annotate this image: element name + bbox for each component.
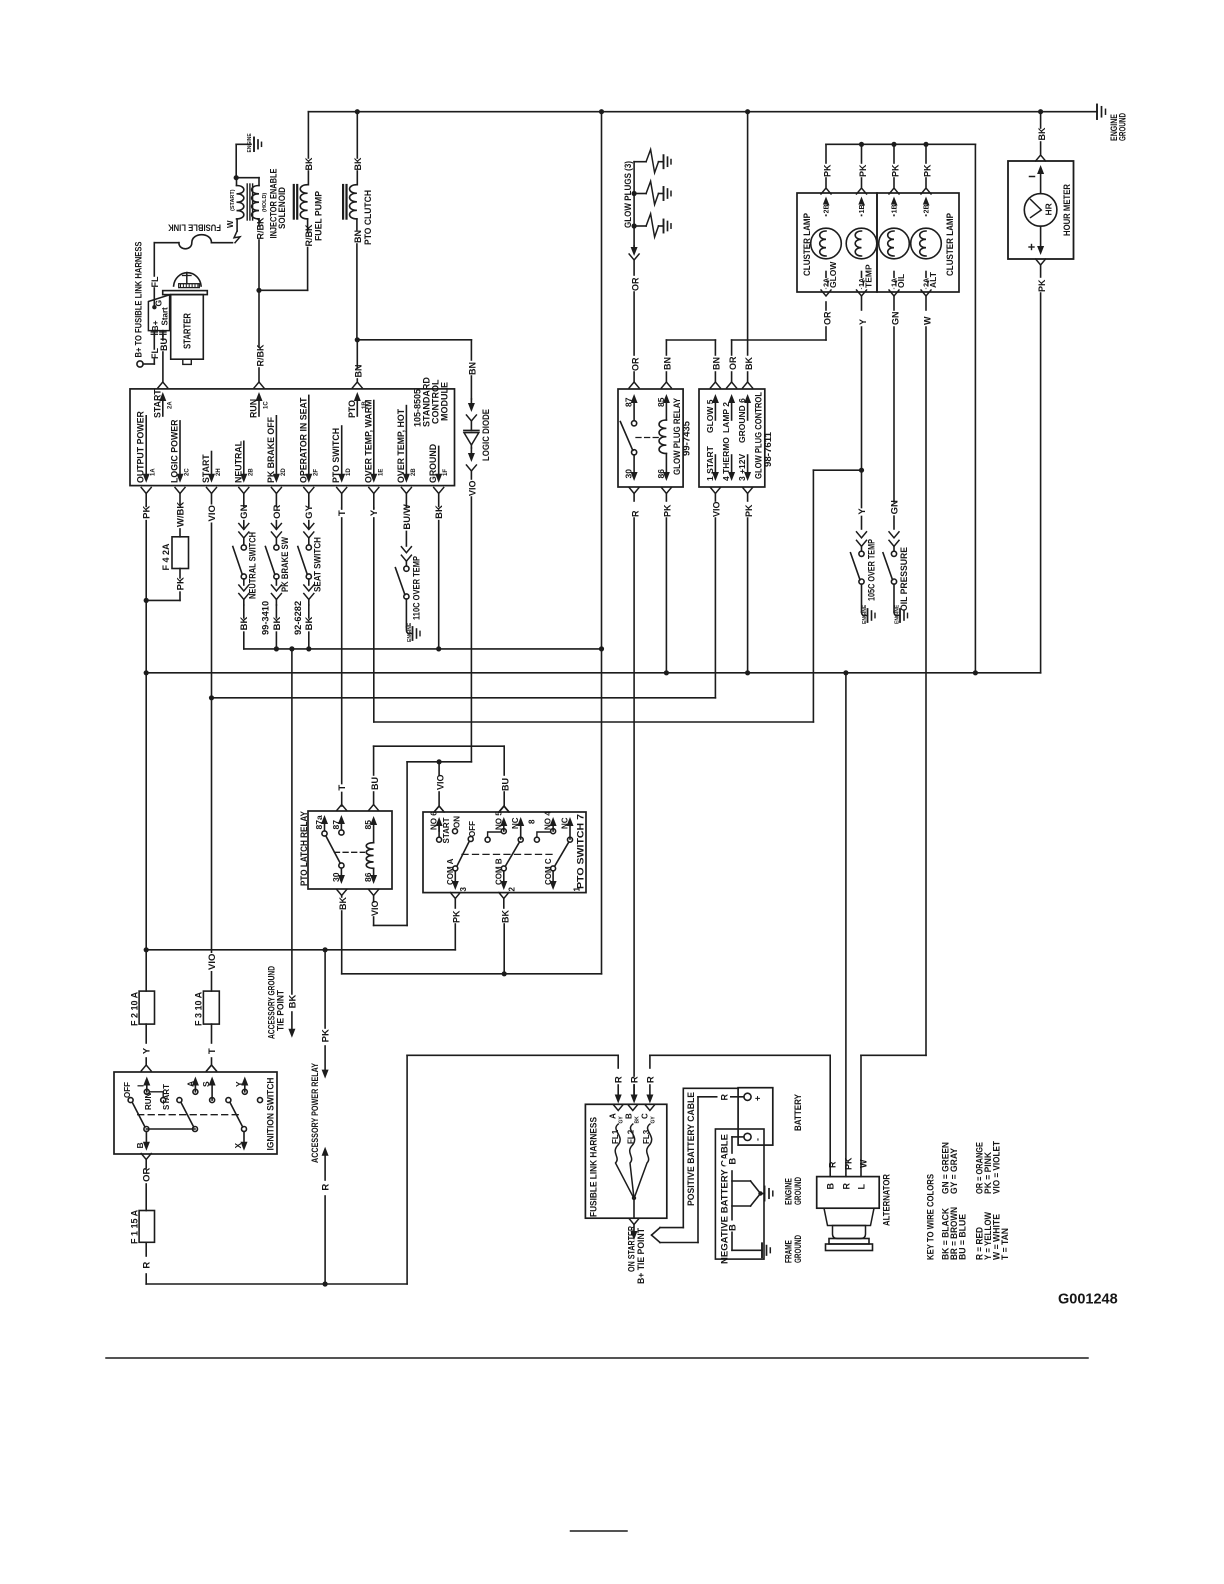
svg-text:PK: PK xyxy=(1037,279,1047,292)
svg-text:2B: 2B xyxy=(824,204,831,213)
svg-text:1E: 1E xyxy=(378,469,384,476)
svg-text:2C: 2C xyxy=(185,468,191,476)
svg-text:4 THERMO: 4 THERMO xyxy=(721,437,731,481)
svg-text:ENGINE: ENGINE xyxy=(784,1178,794,1205)
cluster lamp ALT xyxy=(911,197,942,290)
svg-text:GLOW PLUG RELAY: GLOW PLUG RELAY xyxy=(672,398,682,475)
wire BK power rail to hour meter xyxy=(1036,112,1047,161)
svg-text:VIO = VIOLET: VIO = VIOLET xyxy=(991,1141,1001,1194)
svg-text:B: B xyxy=(826,1183,836,1190)
svg-text:ON STARTER: ON STARTER xyxy=(626,1226,636,1272)
svg-text:GY = GRAY: GY = GRAY xyxy=(949,1147,959,1194)
module bottom pin OUTPUT POWER 1A xyxy=(136,411,157,506)
svg-text:87a: 87a xyxy=(314,815,324,829)
glow plugs (3) xyxy=(623,150,671,247)
module bottom pin PTO SWITCH 1D xyxy=(331,426,352,508)
wire BK glow plug control ground to rail xyxy=(743,112,754,388)
module bottom pin OVER TEMP, HOT 2B xyxy=(396,406,417,508)
PTO latch relay contact 87a xyxy=(314,815,328,836)
svg-text:NO 5: NO 5 xyxy=(494,811,503,830)
engine ground at oil pressure switch xyxy=(894,604,908,624)
svg-text:GLOW 5: GLOW 5 xyxy=(705,399,715,433)
svg-text:2B: 2B xyxy=(248,468,254,476)
svg-text:B+ TIE POINT: B+ TIE POINT xyxy=(636,1228,646,1284)
glow plug relay dashed actuator link xyxy=(636,437,659,439)
svg-text:OUTPUT POWER: OUTPUT POWER xyxy=(136,411,146,483)
svg-text:GLOW PLUG CONTROL: GLOW PLUG CONTROL xyxy=(754,392,764,479)
svg-text:PK BRAKE SW: PK BRAKE SW xyxy=(280,537,290,592)
svg-text:30: 30 xyxy=(331,872,341,882)
svg-text:BK: BK xyxy=(272,616,283,630)
wire FL starter G post to fusible link xyxy=(150,243,160,308)
svg-text:R: R xyxy=(828,1161,838,1168)
svg-text:LOGIC DIODE: LOGIC DIODE xyxy=(481,409,491,461)
cluster lamp OIL xyxy=(879,197,910,290)
svg-text:2H: 2H xyxy=(216,468,222,476)
svg-text:3 +12V: 3 +12V xyxy=(737,453,747,481)
svg-text:B+ TO FUSIBLE LINK HARNESS: B+ TO FUSIBLE LINK HARNESS xyxy=(134,242,144,358)
svg-text:BATTERY: BATTERY xyxy=(793,1094,803,1131)
engine ground at injector solenoid xyxy=(236,133,261,153)
svg-text:BU/W: BU/W xyxy=(402,504,413,529)
svg-text:2A: 2A xyxy=(167,401,173,409)
svg-text:W: W xyxy=(226,220,235,228)
svg-text:PK: PK xyxy=(922,164,932,177)
glow plug control pin GROUND 6 xyxy=(737,394,751,443)
svg-text:POSITIVE BATTERY CABLE: POSITIVE BATTERY CABLE xyxy=(686,1092,696,1206)
svg-text:85: 85 xyxy=(363,820,373,830)
module top pin PTO 1B xyxy=(347,392,368,418)
svg-text:OVER TEMP, HOT: OVER TEMP, HOT xyxy=(396,408,406,483)
fuel pump xyxy=(259,112,325,291)
svg-text:86: 86 xyxy=(363,872,373,882)
wire PK output power xyxy=(139,505,153,991)
wire BK module ground xyxy=(431,505,445,649)
accessory power relay arrows PK R xyxy=(310,950,332,1284)
svg-text:ALTERNATOR: ALTERNATOR xyxy=(882,1174,892,1226)
svg-text:R: R xyxy=(142,1262,153,1269)
svg-text:LAMP 2: LAMP 2 xyxy=(721,402,731,433)
bottom center short rule xyxy=(571,1530,628,1532)
svg-text:BU: BU xyxy=(370,777,380,790)
svg-text:PK: PK xyxy=(452,910,462,923)
wire T PTO switch pin to PTO latch relay xyxy=(334,508,348,806)
cluster lamp box right (OIL ALT) xyxy=(877,193,959,292)
svg-text:R: R xyxy=(842,1183,852,1190)
svg-text:Y: Y xyxy=(142,1047,153,1054)
PTO switch box xyxy=(423,812,586,893)
negative battery cable to grounds xyxy=(725,1137,763,1250)
wire VIO start to fuse F3 xyxy=(204,505,218,992)
svg-text:R: R xyxy=(719,1094,729,1101)
svg-text:VIO: VIO xyxy=(207,505,218,521)
svg-text:B: B xyxy=(727,1158,738,1165)
svg-text:110C OVER TEMP: 110C OVER TEMP xyxy=(412,556,422,620)
svg-text:R/BK: R/BK xyxy=(255,344,265,366)
fusible link xyxy=(154,222,232,249)
svg-text:STARTER: STARTER xyxy=(183,312,194,349)
svg-text:A: A xyxy=(185,1081,195,1087)
svg-text:98-7611: 98-7611 xyxy=(763,432,773,467)
svg-text:PTO: PTO xyxy=(347,400,357,418)
svg-text:PTO SWITCH: PTO SWITCH xyxy=(331,428,341,483)
svg-text:F 3 10 A: F 3 10 A xyxy=(194,991,204,1026)
svg-text:FL: FL xyxy=(150,276,160,287)
ignition switch box xyxy=(114,1072,277,1154)
svg-text:BK: BK xyxy=(239,616,250,630)
svg-text:OR: OR xyxy=(822,311,832,325)
hour meter box xyxy=(1008,161,1074,259)
svg-text:BN: BN xyxy=(353,230,363,243)
110C over temp switch xyxy=(395,504,412,627)
positive battery cable xyxy=(652,1088,739,1242)
svg-text:PTO SWITCH 7: PTO SWITCH 7 xyxy=(576,814,586,889)
svg-text:VIO: VIO xyxy=(468,480,478,496)
wire PK relay pin 86 to PK rail xyxy=(661,488,672,676)
ignition switch dashed coupler xyxy=(138,1114,242,1116)
svg-text:GLOW PLUGS (3): GLOW PLUGS (3) xyxy=(623,161,633,228)
svg-text:T: T xyxy=(207,1048,218,1054)
svg-text:GLOW: GLOW xyxy=(828,261,838,288)
svg-text:OR: OR xyxy=(272,504,283,518)
svg-text:TIE POINT: TIE POINT xyxy=(276,990,286,1031)
wire R fuse F1 to fusible link FL1 xyxy=(146,1055,624,1286)
glow plug relay contacts 87 30 xyxy=(620,394,637,481)
PTO latch relay contact 87 xyxy=(331,815,345,835)
svg-text:BK: BK xyxy=(434,505,445,519)
svg-text:2B: 2B xyxy=(924,204,931,213)
svg-text:W: W xyxy=(922,316,932,325)
svg-text:LOGIC POWER: LOGIC POWER xyxy=(170,419,180,483)
wire W alt lamp to alternator xyxy=(859,290,933,1177)
svg-text:W: W xyxy=(859,1159,869,1168)
wire PK lamp rail down to PK bus xyxy=(973,144,978,675)
module bottom pin GROUND 1F xyxy=(428,444,449,508)
svg-text:OIL PRESSURE: OIL PRESSURE xyxy=(899,547,909,611)
ignition switch pole 2 (A S) xyxy=(146,1077,215,1132)
svg-text:GROUND: GROUND xyxy=(428,444,438,483)
svg-text:105C OVER TEMP: 105C OVER TEMP xyxy=(867,539,877,601)
wire BK switch ground bus xyxy=(244,646,604,651)
svg-text:FUEL PUMP: FUEL PUMP xyxy=(314,190,325,241)
svg-text:R/BK: R/BK xyxy=(304,224,314,246)
wire top power rail BK xyxy=(308,111,1097,113)
chevrons at PTO switch pins xyxy=(434,806,509,899)
wire BU relay 85 to PTO switch NO 5 xyxy=(370,746,511,812)
svg-text:1A: 1A xyxy=(151,468,157,476)
svg-text:1C: 1C xyxy=(264,401,270,409)
wire BK relay 30 to ground bus xyxy=(338,649,602,977)
svg-text:2F: 2F xyxy=(313,469,319,476)
svg-text:PK: PK xyxy=(858,164,868,177)
wire BN relay 85 to glow plug control GLOW 5 xyxy=(661,340,721,388)
wire Y temp lamp to 105C switch xyxy=(854,290,868,529)
svg-text:Y: Y xyxy=(857,508,868,515)
module bottom pin OVER TEMP, WARM 1E xyxy=(363,400,384,508)
svg-text:ON: ON xyxy=(452,816,461,828)
svg-text:HOUR METER: HOUR METER xyxy=(1062,184,1072,236)
svg-text:R: R xyxy=(645,1076,656,1083)
wire PK to alternator R xyxy=(843,673,853,1177)
svg-text:A: A xyxy=(609,1113,618,1119)
svg-text:COM C: COM C xyxy=(544,858,553,885)
svg-text:BK: BK xyxy=(744,357,754,370)
svg-text:OPERATOR IN SEAT: OPERATOR IN SEAT xyxy=(298,397,308,483)
svg-text:NEUTRAL SWITCH: NEUTRAL SWITCH xyxy=(248,532,258,599)
chevrons at PTO latch relay pins xyxy=(337,805,379,896)
svg-text:FRAME: FRAME xyxy=(784,1240,794,1263)
PTO switch pole C contacts xyxy=(534,811,581,892)
glow plug control pin 3 +12V xyxy=(737,453,751,481)
svg-text:R: R xyxy=(321,1184,332,1191)
svg-text:S: S xyxy=(201,1081,211,1087)
module bottom pin OPERATOR IN SEAT 2F xyxy=(298,395,319,508)
module bottom pin PK BRAKE OFF 2D xyxy=(266,416,287,508)
svg-text:Y: Y xyxy=(234,1081,244,1087)
svg-text:B: B xyxy=(624,1113,633,1119)
glow plug relay 99-7435 box xyxy=(618,389,692,487)
svg-text:PK: PK xyxy=(890,164,900,177)
cluster lamp GLOW xyxy=(811,197,842,290)
wire PK hour meter to PK bus xyxy=(1036,259,1047,673)
svg-text:-: - xyxy=(753,1138,763,1141)
negative battery cable box xyxy=(715,1129,764,1264)
cluster lamp TEMP xyxy=(846,197,877,290)
svg-text:PK: PK xyxy=(744,504,754,517)
svg-text:R: R xyxy=(614,1076,625,1083)
svg-text:BK: BK xyxy=(338,897,348,910)
PTO switch pole B contacts xyxy=(485,811,536,892)
svg-text:FL3: FL3 xyxy=(642,1129,651,1144)
module bottom pin LOGIC POWER 2C xyxy=(170,419,191,508)
svg-text:1 START: 1 START xyxy=(705,445,715,481)
svg-text:OR: OR xyxy=(630,277,640,291)
svg-text:PK: PK xyxy=(663,504,673,517)
svg-text:OR: OR xyxy=(142,1167,153,1181)
svg-text:GN: GN xyxy=(889,500,900,514)
wire OR glow plugs to relay pin 87 xyxy=(629,246,640,388)
cluster lamp box left (GLOW TEMP) xyxy=(797,193,877,292)
svg-text:GROUND: GROUND xyxy=(1118,113,1128,141)
svg-text:85: 85 xyxy=(656,397,666,407)
fusible link FL2 B xyxy=(624,1105,640,1199)
svg-text:HR: HR xyxy=(1044,203,1054,215)
svg-text:BK: BK xyxy=(304,157,314,170)
svg-text:Start: Start xyxy=(160,307,169,326)
svg-text:FUSIBLE LINK HARNESS: FUSIBLE LINK HARNESS xyxy=(589,1117,599,1217)
wires at ignition switch xyxy=(139,1065,217,1211)
svg-text:8: 8 xyxy=(528,819,537,824)
svg-text:VIO: VIO xyxy=(370,900,380,916)
svg-text:R: R xyxy=(630,510,640,517)
PTO clutch xyxy=(343,112,374,340)
fuse F3 10A xyxy=(194,991,220,1071)
svg-text:BK: BK xyxy=(501,910,511,923)
svg-text:87: 87 xyxy=(624,397,634,407)
svg-text:X: X xyxy=(233,1143,243,1149)
glow plug control pin 4 THERMO xyxy=(721,437,735,481)
svg-text:GROUND: GROUND xyxy=(793,1177,803,1205)
svg-text:3: 3 xyxy=(459,887,468,892)
PTO switch dashed coupler xyxy=(462,853,553,855)
wire OR glow plug control LAMP 2 to glow lamp xyxy=(727,290,833,388)
cluster lamp PK feed rail xyxy=(821,142,975,194)
wire W zigzag to injector solenoid xyxy=(226,219,240,243)
battery box xyxy=(738,1088,803,1145)
fuse F4 2A xyxy=(146,502,188,601)
svg-text:W/BK: W/BK xyxy=(175,502,186,527)
svg-text:COM B: COM B xyxy=(495,858,504,885)
module top pin START 2A xyxy=(152,389,173,418)
svg-text:G001248: G001248 xyxy=(1058,1292,1118,1308)
svg-text:BK: BK xyxy=(287,994,298,1008)
wire BU starter Start terminal to module START pin xyxy=(158,336,169,388)
svg-text:KEY TO WIRE COLORS: KEY TO WIRE COLORS xyxy=(926,1174,936,1260)
key to wire colors xyxy=(926,1141,1010,1260)
module bottom pin START 2H xyxy=(201,452,222,509)
svg-text:RUN: RUN xyxy=(144,1092,153,1110)
wire R/BK injector solenoid to RUN pin xyxy=(254,217,265,388)
fusible link harness output to B+ tie point xyxy=(626,1196,646,1284)
svg-text:ENGINE: ENGINE xyxy=(895,604,901,624)
svg-text:OFF: OFF xyxy=(123,1082,132,1098)
wire BK PTO switch COM B to ground run xyxy=(501,899,511,974)
svg-text:(START): (START) xyxy=(230,189,236,211)
svg-text:C: C xyxy=(640,1113,649,1119)
svg-text:START: START xyxy=(442,817,451,843)
svg-text:T = TAN: T = TAN xyxy=(1000,1228,1010,1260)
svg-text:RUN: RUN xyxy=(249,399,259,418)
svg-text:2D: 2D xyxy=(281,468,287,476)
svg-text:VIO: VIO xyxy=(435,774,445,790)
svg-text:OIL: OIL xyxy=(896,274,906,288)
svg-text:PTO CLUTCH: PTO CLUTCH xyxy=(363,190,374,245)
svg-text:START: START xyxy=(201,454,211,483)
svg-text:1F: 1F xyxy=(443,469,449,476)
105C over temp switch xyxy=(851,532,877,612)
svg-text:TEMP: TEMP xyxy=(864,264,874,288)
terminal B+ to fusible link harness xyxy=(134,242,155,368)
svg-text:99-7435: 99-7435 xyxy=(682,421,692,456)
wire BN PTO clutch to module PTO pin and logic diode xyxy=(352,337,471,388)
svg-text:VIO: VIO xyxy=(207,954,218,970)
svg-text:BN: BN xyxy=(468,362,478,375)
svg-text:PK: PK xyxy=(822,164,832,177)
ignition switch pole 1 (I B OFF RUN START) xyxy=(123,1077,171,1151)
svg-text:FUSIBLE LINK: FUSIBLE LINK xyxy=(168,222,221,233)
svg-text:1B: 1B xyxy=(892,204,899,213)
svg-text:F 2 10 A: F 2 10 A xyxy=(129,991,139,1026)
svg-text:2: 2 xyxy=(508,887,517,892)
svg-text:OR: OR xyxy=(728,356,738,370)
svg-text:BU: BU xyxy=(159,338,169,351)
wire R battery positive to B+ tie point xyxy=(660,1092,744,1242)
svg-text:CLUSTER LAMP: CLUSTER LAMP xyxy=(945,213,955,276)
wire VIO glow plug control 1 START xyxy=(212,488,722,698)
svg-text:START: START xyxy=(152,389,162,418)
PTO latch relay box xyxy=(299,811,392,889)
svg-text:B: B xyxy=(135,1142,145,1148)
svg-text:Y: Y xyxy=(858,319,868,325)
fusible link harness box xyxy=(585,1104,666,1218)
svg-text:SOLENOID: SOLENOID xyxy=(277,187,287,229)
svg-text:NO 6: NO 6 xyxy=(430,811,439,830)
starter motor body xyxy=(163,273,208,365)
svg-text:GROUND: GROUND xyxy=(793,1235,803,1263)
svg-text:BK: BK xyxy=(1037,127,1047,140)
svg-text:NO 4: NO 4 xyxy=(544,811,553,830)
svg-text:R: R xyxy=(630,1076,641,1083)
svg-text:F 4 2A: F 4 2A xyxy=(161,543,171,571)
svg-text:NC: NC xyxy=(511,817,520,829)
svg-text:1B: 1B xyxy=(859,204,866,213)
svg-text:PK BRAKE OFF: PK BRAKE OFF xyxy=(266,416,276,483)
svg-text:87: 87 xyxy=(331,820,341,830)
glow plug control pin 1 START xyxy=(705,445,719,481)
oil pressure switch xyxy=(883,532,909,612)
svg-text:MODULE: MODULE xyxy=(440,382,450,421)
svg-text:NEUTRAL: NEUTRAL xyxy=(233,440,243,483)
glow plug relay coil 85 86 xyxy=(656,394,670,481)
module top pin RUN 1C xyxy=(249,392,270,418)
PTO latch relay dashed actuator link xyxy=(335,851,365,853)
wire PK PTO switch COM A to accessory feed xyxy=(146,899,461,953)
svg-text:R/BK: R/BK xyxy=(255,217,265,239)
wire Y over temp warm xyxy=(366,470,861,722)
PTO latch relay common 30 and blade xyxy=(326,836,345,884)
frame ground at battery xyxy=(732,1235,803,1263)
logic diode xyxy=(464,340,491,762)
svg-text:+: + xyxy=(753,1096,763,1101)
glow plug control pin LAMP 2 xyxy=(721,394,735,433)
svg-text:OR: OR xyxy=(630,357,640,371)
neutral switch xyxy=(233,504,271,648)
svg-text:F 1 15 A: F 1 15 A xyxy=(129,1209,139,1244)
module bottom pin NEUTRAL 2B xyxy=(233,440,254,508)
engine ground at 105C over temp switch xyxy=(862,604,876,624)
separator rule xyxy=(106,1357,1088,1359)
svg-text:PK: PK xyxy=(321,1029,332,1042)
svg-text:ALT: ALT xyxy=(928,271,938,288)
wire R to alternator B xyxy=(650,1055,838,1176)
junction dots on top rail xyxy=(355,109,1044,114)
svg-text:ENGINE: ENGINE xyxy=(407,622,413,642)
engine ground at 110C over temp switch xyxy=(406,556,421,642)
svg-text:BK: BK xyxy=(304,616,315,630)
svg-text:T: T xyxy=(337,785,348,791)
svg-text:BK: BK xyxy=(634,1116,640,1124)
battery negative terminal xyxy=(744,1133,763,1141)
svg-text:START: START xyxy=(162,1084,171,1110)
svg-text:1: 1 xyxy=(573,887,582,892)
svg-text:PK: PK xyxy=(843,1157,853,1170)
svg-text:BU: BU xyxy=(501,778,511,791)
wire VIO logic diode to PTO switch NO 6 and relay 86 xyxy=(370,759,472,925)
svg-text:BK: BK xyxy=(353,157,363,170)
fusible link FL1 A xyxy=(609,1105,634,1199)
alternator xyxy=(817,1174,892,1251)
svg-text:GN: GN xyxy=(239,504,250,518)
fuse F1 15A xyxy=(129,1209,154,1284)
svg-text:GN: GN xyxy=(890,312,900,326)
engine ground top right xyxy=(1097,105,1128,142)
svg-text:30: 30 xyxy=(624,469,634,479)
svg-text:ENGINE: ENGINE xyxy=(247,133,253,153)
accessory ground tie point arrow BK xyxy=(267,649,299,1039)
wire FL from B+ terminal to starter B+ post xyxy=(150,335,160,365)
svg-text:BU = BLUE: BU = BLUE xyxy=(958,1214,968,1260)
injector enable solenoid coils xyxy=(230,144,287,238)
